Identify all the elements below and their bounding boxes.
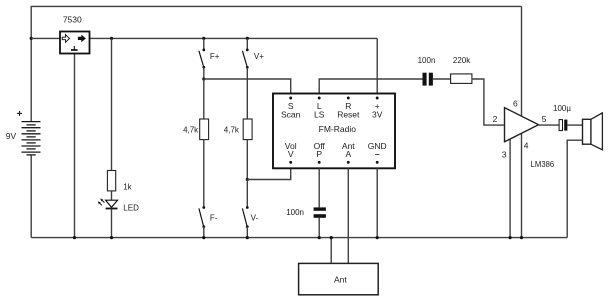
wire: switch V- to ground rail (246, 227, 248, 238)
wire: 3V rail to + pin (376, 38, 378, 93)
wire: 3V rail to switch V+ (246, 38, 248, 50)
wire: scan node to R2 (203, 79, 205, 119)
svg-text:4: 4 (524, 141, 529, 151)
wire: LS pin to coupling cap C1 (319, 79, 422, 94)
node: pin 3 ground junction (509, 236, 512, 239)
wire: C3 to speaker (567, 124, 582, 126)
node: V- ground junction (246, 236, 249, 239)
voltage regulator U2 7530 (60, 32, 90, 54)
svg-text:LED: LED (123, 204, 139, 213)
wire: battery negative to ground rail (30, 155, 32, 238)
wire: switch F+ to scan node (203, 67, 205, 79)
svg-text:V-: V- (251, 214, 259, 223)
switch S2 V+ (242, 49, 248, 69)
node: GND pin ground junction (376, 236, 379, 239)
svg-text:–: – (375, 149, 380, 159)
switch S1 F+ (199, 49, 205, 69)
svg-text:4,7k: 4,7k (224, 126, 240, 135)
wire: left rail battery positive (30, 6, 32, 122)
wire: Vol pin to volume node (247, 168, 290, 179)
node: LED branch tap (110, 37, 113, 40)
wire: pin 5 to C3 (539, 124, 560, 126)
wire: 3V rail to switch F+ (203, 38, 205, 50)
speaker LS1 (583, 113, 603, 150)
svg-text:F+: F+ (210, 52, 220, 61)
antenna ANT1 (299, 263, 379, 294)
wire: Ant pin to antenna (crosses ground rail) (347, 168, 349, 263)
capacitor C3 100u electrolytic (559, 120, 567, 131)
node: volume junction (246, 178, 249, 181)
svg-text:F-: F- (210, 214, 218, 223)
battery BT1 9V (22, 122, 41, 155)
IC U1 FM-Radio (273, 94, 395, 169)
svg-text:FM-Radio: FM-Radio (319, 124, 357, 134)
resistor R1 1k (107, 171, 115, 191)
wire: top 9V rail (31, 5, 521, 7)
svg-text:Scan: Scan (281, 110, 301, 120)
wire: regulator output 3V rail (90, 37, 378, 39)
svg-text:9V: 9V (6, 131, 17, 141)
wire: Off pin to C2 (318, 168, 320, 207)
node: F+ branch tap (202, 37, 205, 40)
LED D1 (98, 198, 118, 208)
svg-text:2: 2 (493, 114, 498, 124)
wire: regulator input (31, 37, 60, 39)
ground rail (bottom) (31, 237, 567, 239)
svg-text:220k: 220k (453, 56, 471, 65)
wire: LED to ground rail (111, 209, 113, 238)
svg-text:P: P (316, 149, 322, 159)
node: V+ branch tap (246, 37, 249, 40)
svg-text:Ant: Ant (334, 274, 347, 284)
resistor R3 4,7k (243, 119, 252, 140)
svg-text:V: V (288, 149, 294, 159)
wire: LM386 pin 6 supply drop (521, 6, 523, 118)
svg-text:3: 3 (502, 149, 507, 159)
svg-text:Reset: Reset (337, 110, 360, 120)
pin GND (376, 161, 379, 164)
wire: C1 to R4 (433, 78, 451, 80)
wire: LM386 pin 4 to ground (521, 131, 523, 238)
op-amp U3 LM386 (505, 108, 539, 142)
wire: switch F- to ground rail (203, 227, 205, 238)
node: F- ground junction (202, 236, 205, 239)
wire: R4 to LM386 pin 2 (472, 79, 505, 125)
wire: R3 to volume node (246, 140, 248, 180)
wire: GND pin to ground rail (376, 168, 378, 237)
svg-text:3V: 3V (372, 110, 383, 120)
svg-text:100µ: 100µ (553, 104, 571, 113)
svg-text:+: + (17, 109, 23, 120)
svg-text:6: 6 (513, 99, 518, 109)
wire: scan node to S pin (204, 79, 291, 94)
node: C2 ground junction (318, 236, 321, 239)
node: scan junction (202, 77, 205, 80)
capacitor C1 100n coupling (423, 73, 433, 86)
svg-text:5: 5 (542, 114, 547, 124)
svg-text:V+: V+ (254, 52, 264, 61)
svg-text:LS: LS (314, 110, 325, 120)
node: antenna ground junction (330, 236, 333, 239)
pin S (289, 97, 292, 100)
resistor R2 4,7k (200, 119, 209, 140)
node: regulator ground junction (73, 236, 76, 239)
node: regulator input junction (30, 37, 33, 40)
pin Off (318, 161, 321, 164)
wire: LM386 pin 3 to ground (509, 136, 511, 238)
wire: C2 to ground rail (318, 218, 320, 238)
svg-text:A: A (345, 149, 351, 159)
wire: regulator ground lead (74, 54, 76, 238)
resistor R4 220k (451, 74, 472, 84)
pin Vol (289, 161, 292, 164)
wire: LED branch from 3V rail (111, 38, 113, 170)
pin L (318, 97, 321, 100)
wire: antenna ground lead (330, 238, 332, 263)
wire: switch V+ to R3 (crosses scan wire) (246, 67, 248, 119)
svg-text:1k: 1k (123, 182, 132, 191)
wire: R2 to switch F- (203, 140, 205, 208)
wire: volume node to switch V- (246, 180, 248, 208)
wire: speaker return to ground rail (567, 140, 582, 237)
capacitor C2 100n decoupling (314, 207, 326, 217)
svg-text:7530: 7530 (63, 14, 82, 24)
switch S3 F- (199, 206, 205, 228)
node: LED ground junction (110, 236, 113, 239)
svg-text:100n: 100n (418, 56, 436, 65)
svg-text:100n: 100n (286, 208, 304, 217)
pin R (347, 97, 350, 100)
svg-text:4,7k: 4,7k (183, 126, 199, 135)
wire: R1 to LED (111, 191, 113, 200)
pin Ant (347, 161, 350, 164)
node: pin 4 ground junction (520, 236, 523, 239)
svg-text:LM386: LM386 (531, 159, 555, 169)
pin plus 3V (376, 97, 379, 100)
switch S4 V- (242, 206, 248, 228)
